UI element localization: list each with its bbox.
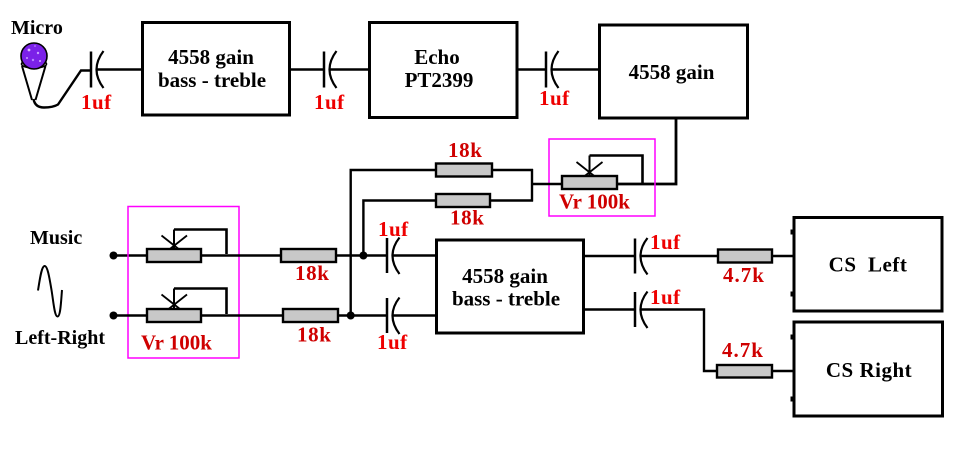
potentiometer VR2 [147, 230, 227, 263]
resistor R4 18k [283, 309, 338, 322]
microphone MIC1 [21, 43, 47, 100]
wire VR3 to R4 [201, 314, 283, 316]
block CS Right [794, 322, 943, 416]
wire input to VR3 [114, 314, 149, 316]
svg-text:1uf: 1uf [377, 330, 408, 354]
potentiometer VR3 [147, 289, 227, 323]
wire R5 to CS Left [772, 255, 794, 257]
capacitor C6 [635, 238, 648, 275]
block U4 4558 gain bass-treble [437, 240, 584, 333]
magenta box around VR1 [549, 139, 655, 216]
capacitor C4 [387, 238, 400, 275]
svg-text:18k: 18k [450, 206, 484, 230]
magenta box around VR2 VR3 [128, 207, 239, 359]
svg-text:1uf: 1uf [650, 230, 681, 254]
wire U4 to C6 [584, 255, 635, 257]
wire mic to C1 [34, 71, 92, 108]
wire input to VR2 [114, 254, 149, 256]
wire U4 to C7 [584, 308, 635, 310]
svg-text:18k: 18k [448, 138, 482, 162]
capacitor C2 [324, 51, 337, 88]
wire U1 to C2 [290, 68, 324, 70]
wire C7 to R6 [641, 310, 718, 372]
svg-text:CS Left: CS Left [829, 253, 908, 277]
block U1 4558 gain bass-treble [143, 23, 290, 116]
resistor R2 18k [436, 194, 490, 207]
capacitor C7 [635, 292, 648, 329]
block U3 4558 gain [600, 25, 748, 118]
svg-text:bass - treble: bass - treble [452, 287, 560, 311]
svg-text:4558 gain: 4558 gain [462, 264, 548, 288]
wire C6 to R5 [641, 255, 718, 257]
wire R4 to C5 [338, 314, 387, 316]
capacitor C1 [91, 51, 104, 88]
wire C2 to U2 [330, 68, 370, 70]
wire U2 to C3 [517, 68, 546, 70]
wire R1 right [492, 169, 533, 171]
wire C3 to U3 [552, 68, 600, 70]
potentiometer VR1 [562, 156, 643, 190]
wire R2 right [490, 199, 533, 201]
wire C1 to U1 [97, 68, 142, 70]
wire R6 to CS Right [772, 370, 794, 372]
svg-text:CS Right: CS Right [826, 358, 912, 382]
svg-text:1uf: 1uf [81, 90, 112, 114]
block U2 Echo PT2399 [370, 23, 518, 118]
junction node B [347, 312, 355, 320]
junction node A [359, 252, 367, 260]
resistor R5 4.7k [718, 250, 772, 263]
wire R1 to node B [351, 170, 436, 316]
wire VR1 left to resistor junction [532, 169, 562, 202]
input terminal dot Left-Right [110, 312, 118, 320]
wire C4 to U4 [393, 254, 437, 256]
svg-text:Music: Music [30, 227, 82, 249]
svg-text:18k: 18k [295, 261, 329, 285]
svg-text:1uf: 1uf [539, 86, 570, 110]
wire R2 to node A [363, 201, 436, 256]
svg-text:1uf: 1uf [314, 90, 345, 114]
pin stub CS Right lower [791, 397, 794, 402]
sine wave icon [38, 266, 62, 317]
svg-text:Vr 100k: Vr 100k [559, 190, 630, 214]
svg-text:1uf: 1uf [378, 217, 409, 241]
svg-text:Echo: Echo [414, 45, 460, 69]
svg-text:4558 gain: 4558 gain [168, 45, 254, 69]
capacitor C3 [546, 51, 559, 88]
capacitor C5 [387, 298, 400, 335]
svg-text:1uf: 1uf [650, 285, 681, 309]
pin stub CS Left lower [791, 292, 794, 297]
resistor R3 18k [281, 249, 336, 262]
svg-text:bass - treble: bass - treble [158, 68, 266, 92]
svg-text:Micro: Micro [11, 17, 63, 39]
resistor R1 18k [436, 164, 492, 177]
block CS Left [794, 218, 942, 312]
svg-text:18k: 18k [297, 323, 331, 347]
wire VR2 to R3 [201, 254, 281, 256]
resistor R6 4.7k [717, 365, 772, 378]
svg-text:4.7k: 4.7k [722, 338, 764, 362]
wire U3 to VR1 [617, 118, 676, 184]
svg-text:PT2399: PT2399 [405, 68, 474, 92]
input terminal dot Music [110, 252, 118, 260]
svg-text:4.7k: 4.7k [723, 263, 765, 287]
svg-text:Vr 100k: Vr 100k [141, 331, 212, 355]
svg-text:4558 gain: 4558 gain [629, 60, 715, 84]
svg-text:Left-Right: Left-Right [15, 327, 105, 349]
pin stub CS Right upper [791, 335, 794, 340]
wire C5 to U4 [393, 314, 437, 316]
pin stub CS Left upper [791, 230, 794, 235]
wire R3 to C4 [336, 254, 387, 256]
